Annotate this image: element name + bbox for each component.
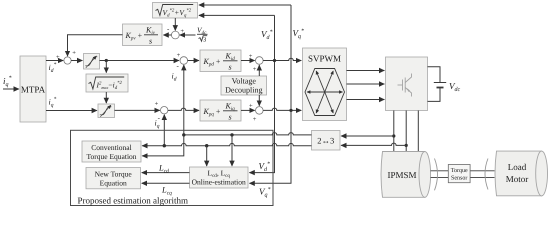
svg-text:-: - <box>158 114 161 122</box>
svg-text:id*: id* <box>49 62 57 74</box>
svg-text:+: + <box>72 50 76 57</box>
svg-text:+: + <box>249 103 253 110</box>
svg-text:+: + <box>56 54 60 61</box>
svg-text:Vd*: Vd* <box>259 161 271 173</box>
svg-text:IPMSM: IPMSM <box>387 170 416 180</box>
svg-text:Conventional: Conventional <box>91 143 131 152</box>
svg-text:Online-estimation: Online-estimation <box>192 178 246 187</box>
svg-text:Torque: Torque <box>451 168 468 174</box>
svg-text:Vq*: Vq* <box>293 28 305 40</box>
svg-text:+: + <box>253 66 257 73</box>
svg-text:s: s <box>229 63 232 72</box>
svg-text:+: + <box>253 116 257 123</box>
svg-text:+: + <box>180 28 184 35</box>
svg-text:+: + <box>177 52 181 59</box>
svg-text:Torque Equation: Torque Equation <box>86 152 136 161</box>
svg-text:Equation: Equation <box>100 179 127 188</box>
svg-text:Sensor: Sensor <box>451 176 467 182</box>
svg-text:2↔3: 2↔3 <box>317 136 334 146</box>
svg-text:Load: Load <box>508 162 527 172</box>
svg-text:Decoupling: Decoupling <box>225 86 262 95</box>
svg-text:s: s <box>149 37 152 46</box>
svg-text:SVPWM: SVPWM <box>308 54 341 64</box>
svg-text:+: + <box>249 53 253 60</box>
svg-text:iq*: iq* <box>3 76 12 89</box>
svg-text:-: - <box>167 25 170 33</box>
svg-text:Vq*: Vq* <box>259 187 271 199</box>
svg-text:-: - <box>177 62 180 70</box>
svg-text:MTPA: MTPA <box>21 85 46 95</box>
svg-text:id: id <box>172 72 177 83</box>
svg-text:Vd*: Vd* <box>261 29 273 41</box>
svg-text:Vdc: Vdc <box>449 81 461 93</box>
svg-text:iq*: iq* <box>49 96 57 108</box>
svg-text:Voltage: Voltage <box>232 77 257 86</box>
svg-text:s: s <box>229 113 232 122</box>
svg-text:Proposed estimation algorithm: Proposed estimation algorithm <box>78 196 189 206</box>
svg-text:3: 3 <box>203 37 206 44</box>
svg-text:New Torque: New Torque <box>95 170 133 179</box>
svg-text:Motor: Motor <box>506 174 529 184</box>
svg-text:+: + <box>155 100 159 107</box>
